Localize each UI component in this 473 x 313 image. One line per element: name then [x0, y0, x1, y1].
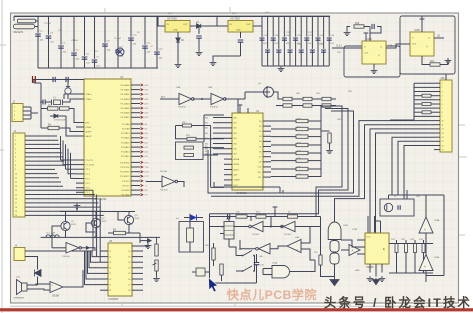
svg-text:4: 4	[442, 96, 443, 98]
MCU right pin P0.3/AD3	[131, 98, 140, 100]
U2 right pin D5	[263, 146, 271, 148]
left image edge line	[1, 0, 3, 313]
connector J4 2-pin	[14, 248, 25, 261]
svg-text:O4: O4	[128, 268, 131, 270]
MCU left pin XTAL2	[76, 98, 84, 100]
svg-text:IN0: IN0	[205, 117, 208, 119]
svg-text:C5 104: C5 104	[114, 38, 122, 40]
wire inverter row	[210, 226, 249, 228]
svg-text:VR-: VR-	[258, 177, 262, 179]
capacitor C22	[306, 16, 308, 66]
svg-text:ULN2803: ULN2803	[108, 298, 119, 301]
svg-text:P3.5/T1: P3.5/T1	[122, 185, 130, 187]
wire R20 C27 to U10A preset	[364, 26, 370, 28]
MCU right pin P0.0/AD0	[131, 84, 140, 86]
capacitor C19	[289, 16, 291, 66]
capacitor C8 with rail wire	[117, 16, 119, 28]
J3 pin 2 wire	[434, 86, 440, 88]
svg-text:CLK: CLK	[412, 44, 417, 46]
MCU right pin P2.4/A12	[131, 141, 140, 143]
MCU right pin P3.2/INT0	[131, 171, 140, 173]
svg-text:P0.6/AD6: P0.6/AD6	[121, 112, 131, 115]
U2 right pin D3	[263, 135, 271, 137]
svg-text:74LS04: 74LS04	[178, 107, 186, 109]
microcontroller U1 AT89C51	[84, 79, 131, 196]
oscillator loop bottom wire	[210, 282, 257, 284]
bus wire stair 8	[392, 137, 434, 195]
capacitor C9 with rail wire	[130, 16, 132, 28]
capacitor C11 on top wire	[66, 77, 68, 82]
svg-text:13: 13	[442, 133, 444, 135]
svg-text:12: 12	[15, 182, 17, 184]
MCU left pin P1.5	[76, 182, 84, 184]
resistor R11 vertical	[155, 244, 158, 256]
MCU right pin P3.1/TXD	[131, 166, 140, 168]
svg-text:6: 6	[15, 157, 16, 159]
U5 left pin 3	[100, 261, 108, 263]
svg-text:P2.0/A8: P2.0/A8	[122, 123, 130, 126]
U5 left pin 7	[100, 284, 108, 286]
wire U6D output	[240, 240, 256, 249]
U2 left pin IN0	[224, 117, 232, 119]
bus wire stair 10	[404, 146, 434, 200]
U2 left pin IN2	[224, 127, 232, 129]
mouse cursor	[209, 278, 218, 293]
MCU left pin ALE	[76, 131, 84, 133]
U5 right pin 6	[132, 278, 143, 280]
bus wire stair 6	[370, 129, 434, 233]
capacitor C16	[272, 16, 274, 66]
MCU left pin PSEN	[76, 126, 84, 128]
inverter U3B 74LS04	[211, 94, 224, 105]
relay coil K1	[224, 222, 234, 240]
U2 left pin EOC	[224, 184, 232, 186]
svg-text:8: 8	[442, 112, 443, 114]
wires into U11A	[263, 268, 272, 270]
resistor R21 below U10B	[422, 56, 430, 65]
capacitor C24	[317, 16, 319, 66]
wire U10B Q output	[434, 37, 444, 39]
J1 pin 11 wire	[25, 177, 59, 179]
svg-text:1: 1	[15, 136, 16, 138]
svg-text:P2.3/A11: P2.3/A11	[121, 137, 130, 140]
svg-text:P2.1/A9: P2.1/A9	[122, 128, 130, 131]
J1 pin 4 wire	[25, 148, 61, 150]
ladder bus vertical wire	[320, 106, 322, 177]
svg-text:U9 7805: U9 7805	[230, 16, 240, 20]
inductor L1 coil on rail	[46, 235, 59, 238]
wire amplifier output	[63, 270, 83, 287]
J3 pin 13 wire	[434, 132, 440, 134]
J3 pin 4 wire	[434, 95, 440, 97]
wire 555 left to stair	[341, 240, 357, 247]
resistor R40 ladder	[271, 120, 296, 122]
electrolytic capacitor C8	[65, 88, 71, 94]
svg-text:P3.2/INT0: P3.2/INT0	[120, 172, 130, 174]
resistor R30 chain	[283, 97, 292, 100]
switch S1 RESET input component	[18, 19, 36, 23]
svg-text:IN5: IN5	[205, 143, 208, 145]
capacitor C7 with rail wire	[104, 16, 106, 68]
wire ladder bus to J3 bus	[390, 119, 414, 121]
bus wire stair 4	[211, 121, 434, 197]
svg-text:ADDC: ADDC	[234, 168, 240, 171]
U12 bottom pins	[369, 264, 371, 273]
capacitor C26	[328, 16, 330, 66]
U2 right pin D6	[263, 151, 271, 153]
svg-text:U14B: U14B	[434, 257, 440, 259]
svg-text:OUT: OUT	[183, 24, 188, 26]
svg-text:10: 10	[15, 173, 17, 175]
svg-text:XTAL1: XTAL1	[86, 93, 93, 96]
J1 pin 17 wire	[25, 202, 98, 204]
U5 input fan wires	[92, 251, 100, 257]
U2 left pin START	[224, 179, 232, 181]
svg-text:O1: O1	[128, 251, 131, 253]
power top rail	[14, 15, 330, 17]
MCU right pin P3.6/WR	[131, 189, 140, 191]
wire from switch to top rail	[13, 16, 15, 21]
capacitor C31	[254, 263, 260, 265]
wire risers to MCU P1 pins	[61, 159, 77, 161]
U2 right pin D4	[263, 140, 271, 142]
wire speaker to amplifier	[27, 284, 50, 285]
U2 left pin ADDC	[224, 169, 232, 171]
diode D1	[190, 25, 196, 27]
svg-text:U11B: U11B	[352, 229, 358, 231]
resistor R26	[184, 146, 194, 149]
MCU right pin P0.1/AD1	[131, 89, 140, 91]
U2 top pin stubs	[239, 108, 241, 113]
ground below C12	[196, 50, 203, 56]
MCU right pin P2.0/A8	[131, 123, 140, 125]
svg-text:74LS04: 74LS04	[284, 234, 292, 236]
wire feedback loop around U10B	[400, 16, 455, 74]
svg-text:5: 5	[442, 100, 443, 102]
ADC U2 ADC0808	[232, 113, 263, 190]
MCU right pin P3.0/RXD	[131, 161, 140, 163]
wire box top feeds	[388, 195, 390, 199]
svg-text:PSEN: PSEN	[86, 127, 92, 129]
capacitor C20	[295, 16, 297, 66]
svg-text:CLK: CLK	[258, 167, 263, 169]
U5 left pin 1	[100, 250, 108, 252]
driver IC U5 ULN2803	[108, 243, 132, 296]
svg-text:C3 104: C3 104	[71, 40, 79, 42]
svg-text:U14A: U14A	[434, 219, 440, 222]
U5 right pin 2	[132, 256, 143, 258]
wire inverter taps to rail	[270, 217, 272, 227]
wire box to 555	[367, 216, 369, 233]
J1 pin 20 wire	[25, 214, 104, 216]
J3 pin 11 wire	[434, 124, 440, 126]
resistor R41 ladder	[271, 128, 296, 130]
J3 pin 1 wire	[434, 82, 440, 84]
capacitor C14	[261, 16, 263, 66]
J3 pin 10 wire	[434, 120, 440, 122]
capacitor C11 with rail wire	[156, 16, 158, 28]
svg-text:5: 5	[15, 153, 16, 155]
svg-text:74LS04: 74LS04	[252, 234, 260, 236]
wire top feed to MCU area	[33, 79, 84, 81]
wire into U3A	[160, 98, 179, 100]
svg-text:74LS04: 74LS04	[160, 190, 168, 192]
svg-text:3: 3	[15, 144, 16, 146]
oscillator loop left wire	[209, 214, 211, 283]
resistor R20 above U10A	[354, 25, 364, 28]
svg-text:I2: I2	[110, 256, 112, 258]
svg-text:7: 7	[442, 108, 443, 110]
AND gate U11A	[272, 266, 290, 278]
svg-text:CLK: CLK	[364, 53, 369, 55]
J1 pin 6 wire	[25, 156, 63, 158]
svg-text:7: 7	[15, 161, 16, 163]
resistor R44 ladder	[271, 152, 296, 154]
MCU right pin P2.7/A15	[131, 155, 140, 157]
svg-text:17: 17	[15, 203, 17, 205]
svg-text:R20: R20	[355, 23, 360, 25]
svg-text:Q1A: Q1A	[388, 44, 393, 47]
wire U11A output	[290, 260, 315, 272]
svg-text:RXD: RXD	[145, 162, 150, 164]
svg-text:14: 14	[15, 190, 17, 192]
svg-text:74LS04: 74LS04	[160, 171, 168, 173]
resistor R43 ladder	[271, 144, 296, 146]
U5 left pin 6	[100, 278, 108, 280]
resistor R55 vertical	[212, 248, 215, 260]
U2 left pin ADDA	[224, 158, 232, 160]
svg-text:RST: RST	[86, 123, 91, 125]
footer red bar	[0, 308, 473, 311]
svg-text:10: 10	[442, 120, 444, 122]
inverter U6B pointing left	[252, 221, 264, 231]
resistor R50	[236, 215, 247, 218]
U5 right pin 4	[132, 267, 143, 269]
J3 upper pin wires with resistors	[414, 82, 434, 84]
svg-text:13: 13	[15, 186, 17, 188]
wire R2 to RST	[69, 109, 76, 123]
MCU left pin P1.4	[76, 178, 84, 180]
U5 left pin 2	[100, 256, 108, 258]
svg-text:I1: I1	[110, 251, 112, 253]
capacitor CE1 capsule below gate	[330, 241, 339, 253]
outer bottom border line	[10, 305, 458, 307]
wire inverter output down	[90, 248, 95, 251]
svg-text:U11A: U11A	[272, 262, 278, 265]
transistor Q1 9013	[61, 221, 70, 230]
svg-text:IN1: IN1	[205, 123, 208, 125]
svg-text:17: 17	[442, 149, 444, 151]
J1 pin 13 wire	[25, 185, 63, 187]
U2 right pin OE	[263, 161, 271, 163]
transistor Q3 9013	[124, 215, 133, 224]
J1 pin 2 wire	[25, 139, 58, 141]
svg-text:U8 7805: U8 7805	[167, 16, 177, 20]
svg-text:P3.0/RXD: P3.0/RXD	[120, 162, 130, 164]
svg-text:IN2: IN2	[205, 128, 208, 130]
svg-text:I3: I3	[110, 262, 112, 264]
bus wire stair 7	[376, 133, 435, 233]
J2 pin 1 wire	[23, 106, 31, 108]
svg-text:O5: O5	[128, 273, 131, 275]
switch SW2 contacts	[242, 270, 244, 272]
capacitor C41 vertical	[395, 244, 398, 253]
svg-text:Q: Q	[378, 55, 380, 57]
switch common wire	[254, 256, 256, 272]
J2 pin 3 wire	[23, 114, 31, 116]
bus wire stair 5	[335, 125, 435, 222]
MCU right pin P0.7/AD7	[131, 116, 140, 118]
J3 pin 7 wire	[434, 107, 440, 109]
wire U3B to Q4	[225, 98, 245, 100]
svg-text:9013: 9013	[102, 221, 108, 223]
capacitor C15	[267, 16, 269, 66]
J3 pin 6 wire	[434, 103, 440, 105]
transistor Q5 in box	[384, 203, 392, 211]
J1 pin 1 wire	[25, 135, 57, 137]
capacitor C18	[283, 16, 285, 66]
resistor R9 above U5	[114, 231, 126, 234]
capacitor C43 vertical	[414, 244, 417, 253]
J1 riser bus wires	[60, 136, 62, 160]
zener diode D2 below U8	[177, 32, 179, 38]
svg-text:16: 16	[15, 199, 17, 201]
MCU right pin P0.4/AD4	[131, 103, 140, 105]
filled diode on J4 branch	[35, 270, 42, 277]
wire J3 to flip-flop loop	[445, 74, 447, 80]
U5 left pin 5	[100, 272, 108, 274]
J3 pin 5 wire	[434, 99, 440, 101]
wires op-amps vertical chain	[425, 195, 427, 217]
svg-text:XTAL2: XTAL2	[86, 98, 93, 101]
U2 left pin IN6	[224, 148, 232, 150]
svg-text:18: 18	[15, 207, 17, 209]
capacitor C2 with rail wire	[48, 16, 50, 68]
capacitor C3 with rail wire	[60, 16, 62, 68]
wire into U13	[341, 249, 349, 251]
U2 right pin D7	[263, 156, 271, 158]
wire U10A Q to U10B clock	[386, 44, 410, 48]
flip-flop U10B 74LS74	[410, 32, 434, 56]
vcc stub above U10B	[421, 16, 423, 32]
J3 pin 15 wire	[434, 140, 440, 142]
left capacitor bank bottom rail	[38, 67, 158, 69]
wire into inverter U6A	[52, 247, 66, 249]
svg-text:GND: GND	[355, 270, 360, 272]
diode D3	[50, 115, 54, 117]
MCU right pin P3.3/INT1	[131, 175, 140, 177]
capacitor C13 below U9	[240, 32, 242, 38]
inverter U3A 74LS04	[179, 94, 192, 105]
svg-text:LM386: LM386	[52, 296, 60, 298]
MCU right pin P2.2/A10	[131, 132, 140, 134]
sub-circuit box outline	[380, 199, 414, 216]
resistor R32 second row	[283, 104, 292, 107]
U5 left pin 4	[100, 267, 108, 269]
clock input wire into U10A	[332, 47, 362, 49]
J2 pin 2 wire	[23, 110, 31, 112]
resistor R48 vertical	[321, 130, 330, 132]
svg-text:1: 1	[442, 83, 443, 85]
arrow diode at MCU bottom left	[147, 238, 152, 243]
J1 long wire risers to U5	[92, 190, 94, 251]
timer U12 NE555	[365, 233, 389, 264]
resistor R4	[48, 126, 59, 129]
capacitor C25	[323, 16, 325, 66]
wire Q1 base feed	[52, 226, 61, 248]
svg-text:P3.4/T0: P3.4/T0	[122, 181, 130, 183]
ground under RP1	[153, 276, 160, 282]
svg-text:ALE: ALE	[161, 95, 166, 98]
connector J3 17-pin header	[440, 80, 452, 152]
wire Q3 collector feed	[118, 212, 124, 221]
svg-text:L1 1.7UH: L1 1.7UH	[46, 233, 56, 235]
inverter U6E near MCU	[162, 176, 175, 187]
svg-text:WR: WR	[145, 190, 149, 192]
MCU left pin EA	[76, 135, 84, 137]
svg-text:8: 8	[15, 165, 16, 167]
resistor R45 ladder	[271, 160, 296, 162]
op-amp U14B pointing up	[419, 255, 433, 271]
junction dots on rail	[227, 216, 229, 218]
MCU right pin P0.6/AD6	[131, 112, 140, 114]
wire U3A to U3B	[193, 98, 211, 100]
U2 left pin IN7	[224, 153, 232, 155]
svg-text:P3.1/TXD: P3.1/TXD	[120, 167, 130, 169]
svg-text:15: 15	[442, 141, 444, 143]
ground right of R21	[440, 58, 448, 65]
MCU left pin P1.1/T2X	[76, 164, 84, 166]
capacitor C44 vertical	[422, 244, 425, 253]
resistor R56 vertical	[220, 264, 223, 275]
J3 pin 17 wire	[434, 149, 440, 151]
U5 right pin 3	[132, 261, 143, 263]
J1 pin 9 wire	[25, 168, 55, 170]
svg-text:9: 9	[442, 116, 443, 118]
svg-text:74LS04: 74LS04	[62, 256, 70, 258]
svg-text:74LS04: 74LS04	[210, 107, 218, 109]
MCU right pin P2.5/A13	[131, 146, 140, 148]
U5 left pin 8	[100, 289, 108, 291]
svg-text:IN-: IN-	[205, 146, 208, 148]
svg-text:U1: U1	[120, 75, 124, 79]
svg-text:O7: O7	[128, 284, 131, 286]
svg-text:R21: R21	[430, 61, 435, 63]
component box above cursor	[196, 268, 205, 276]
relay inner contact element	[187, 228, 194, 242]
svg-text:Q: Q	[380, 47, 382, 49]
U2 right pin VR+	[263, 171, 271, 173]
svg-text:CLK1: CLK1	[336, 45, 342, 47]
MCU right pin P2.6/A14	[131, 151, 140, 153]
U5 right pin 8	[132, 289, 143, 291]
svg-text:O2: O2	[128, 256, 131, 258]
blue diode D4	[190, 215, 197, 221]
svg-text:D3 1N4148: D3 1N4148	[54, 120, 66, 122]
svg-text:U3B: U3B	[208, 87, 213, 89]
inverter U6D pointing left	[259, 244, 271, 254]
inverter U6C pointing left	[284, 221, 296, 231]
svg-text:ALE/P: ALE/P	[86, 131, 93, 134]
wire Q2 base feed	[86, 223, 95, 232]
svg-text:11: 11	[15, 178, 17, 180]
svg-text:P1.0/T2: P1.0/T2	[86, 160, 94, 162]
capacitor C4 with rail wire	[73, 16, 75, 68]
MCU right pin P3.7/RD	[131, 194, 140, 196]
svg-text:U6D: U6D	[238, 249, 243, 251]
wire Q4 to resistor chain	[274, 92, 284, 99]
resistor R46 ladder	[271, 168, 296, 170]
